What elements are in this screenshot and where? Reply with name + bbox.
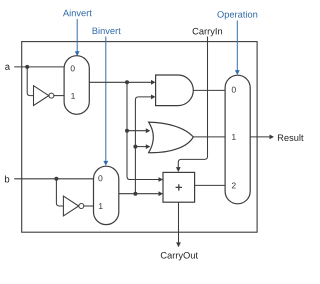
node lane-a to OR: [125, 129, 129, 133]
ALU enclosure box: [22, 42, 257, 233]
arrowhead into OR bottom input: [146, 144, 151, 149]
wire a branch to inverter: [27, 67, 33, 96]
adder box: [163, 172, 195, 202]
inverter b triangle: [63, 196, 78, 216]
mux Ainvert body: [64, 56, 89, 115]
inverter a triangle: [34, 86, 49, 106]
Result arrowhead: [270, 135, 275, 140]
arrowhead into adder top input: [159, 177, 164, 182]
Binvert control wire: [105, 37, 107, 162]
wire lane-b vertical to AND: [135, 97, 151, 194]
label Result: [278, 134, 304, 141]
mux Binvert body: [94, 166, 119, 224]
label mux-a 1: [71, 93, 75, 99]
mux Operation (result mux) body: [225, 75, 250, 204]
wire inverter a to mux: [54, 95, 64, 97]
CarryOut wire: [178, 202, 180, 243]
CarryOut arrowhead: [176, 242, 181, 247]
inverter a bubble: [49, 93, 54, 98]
CarryIn arrowhead into adder: [176, 167, 181, 172]
Ainvert arrowhead: [75, 51, 80, 56]
AND gate: [156, 75, 194, 106]
Result wire: [250, 136, 270, 138]
wire OR output to result mux: [193, 136, 225, 138]
node lane-a top: [125, 80, 129, 84]
Ainvert control wire: [76, 19, 78, 52]
Operation control wire: [236, 21, 238, 71]
node lane-b bottom: [133, 192, 137, 196]
node on wire b: [54, 177, 58, 181]
wire adder output to result mux: [195, 184, 226, 186]
wire mux-b output to adder: [119, 193, 159, 195]
Operation arrowhead: [235, 70, 240, 75]
label CarryIn: [193, 28, 222, 36]
adder plus sign: [176, 184, 182, 190]
Binvert arrowhead: [103, 161, 108, 166]
node on wire a: [25, 65, 29, 69]
label mux-b 1: [99, 203, 103, 209]
wire AND output to result mux: [193, 89, 225, 91]
wire b branch to inverter: [56, 179, 63, 206]
arrowhead into adder bottom input: [159, 191, 164, 196]
wire b input: [14, 178, 93, 180]
node lane-b to OR: [133, 145, 137, 149]
arrowhead into AND bottom input: [151, 95, 156, 100]
inverter b bubble: [79, 204, 84, 209]
wire lane-b to OR bottom input: [135, 146, 146, 148]
label Operation: [217, 11, 257, 20]
wire mux-a output to AND gate: [89, 81, 151, 83]
wire a input: [14, 66, 64, 68]
wire lane-a vertical to adder: [127, 82, 159, 179]
label result-mux 0: [232, 87, 236, 93]
label a: [5, 65, 10, 70]
wire inverter b to mux: [84, 205, 94, 207]
label result-mux 1: [232, 134, 236, 140]
label mux-b 0: [98, 175, 102, 181]
wire lane-a to OR top input: [127, 130, 146, 132]
label result-mux 2: [232, 182, 236, 188]
label Ainvert: [63, 9, 92, 16]
label CarryOut: [161, 252, 198, 260]
label mux-a 0: [71, 65, 75, 71]
arrowhead into AND top input: [151, 80, 156, 85]
label Binvert: [93, 27, 121, 34]
OR gate: [149, 122, 194, 153]
arrowhead into OR top input: [146, 128, 151, 133]
CarryIn wire: [178, 37, 207, 168]
label b: [5, 176, 9, 183]
